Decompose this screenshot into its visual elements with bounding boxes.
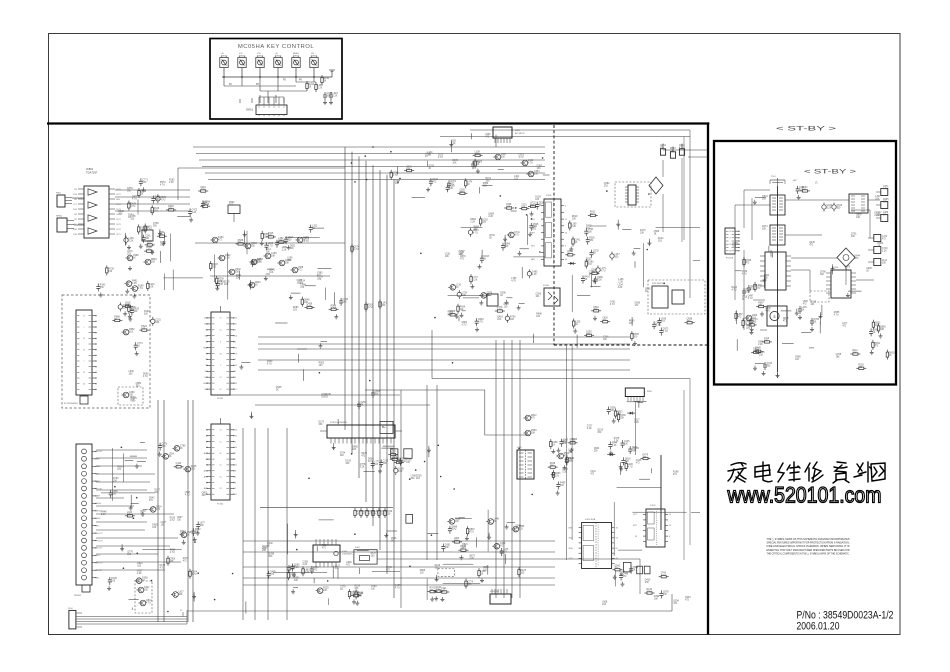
svg-text:28: 28 [220,353,222,355]
svg-text:2.2K: 2.2K [758,344,763,346]
svg-text:15: 15 [220,441,222,443]
svg-text:1K: 1K [340,589,343,591]
svg-text:EXT/SPEAKER: EXT/SPEAKER [64,402,78,405]
svg-text:10K: 10K [497,319,502,321]
svg-text:STR-W6754: STR-W6754 [652,283,664,285]
svg-text:10K: 10K [430,590,435,592]
svg-text:2.2K: 2.2K [137,573,142,575]
svg-text:L: L [206,441,207,443]
svg-text:4.7U: 4.7U [656,325,661,327]
svg-text:1K: 1K [276,389,279,391]
svg-text:ABL: ABL [97,465,100,468]
svg-text:1K: 1K [866,270,869,272]
svg-text:4.7U: 4.7U [146,250,151,252]
svg-text:4.7U: 4.7U [192,574,197,576]
svg-text:IC402 RGB: IC402 RGB [585,519,596,521]
svg-text:4.7U: 4.7U [200,190,205,192]
svg-text:1K: 1K [325,396,328,398]
svg-text:4.7U: 4.7U [511,281,516,283]
svg-text:1K: 1K [575,324,578,326]
svg-text:1K: 1K [481,574,484,576]
svg-text:10K: 10K [200,525,205,527]
svg-text:6: 6 [235,471,236,473]
svg-text:4.7U: 4.7U [469,532,474,534]
svg-text:V.OUT: V.OUT [97,570,103,572]
svg-text:1: 1 [220,365,221,367]
svg-text:AV2: AV2 [204,475,207,478]
svg-text:1K: 1K [133,258,136,260]
svg-text:10K: 10K [155,199,160,201]
svg-text:4.7U: 4.7U [143,376,148,378]
svg-text:2.2K: 2.2K [618,287,623,289]
svg-text:10K: 10K [882,263,887,265]
svg-text:1K: 1K [552,445,555,447]
svg-text:10K: 10K [149,286,154,288]
svg-text:2.2K: 2.2K [294,567,299,569]
svg-text:GND: GND [116,199,121,201]
svg-text:10: 10 [83,350,85,352]
svg-text:2.2K: 2.2K [307,306,312,308]
svg-text:1K: 1K [137,346,140,348]
svg-text:P601: P601 [515,130,521,132]
svg-text:4: 4 [235,377,236,379]
svg-text:2.2K: 2.2K [587,428,592,430]
svg-text:IN1: IN1 [74,219,77,221]
svg-text:CN501: CN501 [246,110,254,112]
svg-text:26: 26 [83,384,85,386]
svg-text:2.2K: 2.2K [618,281,623,283]
svg-text:13: 13 [220,430,222,432]
svg-text:AC INPUT: AC INPUT [515,132,525,135]
svg-text:10K: 10K [352,449,357,451]
svg-text:10K: 10K [483,185,488,187]
svg-text:30: 30 [220,453,222,455]
svg-text:GND: GND [203,347,208,349]
svg-text:PC302: PC302 [217,504,224,506]
svg-text:10K: 10K [287,260,292,262]
svg-text:4: 4 [220,341,221,343]
svg-text:OUT1: OUT1 [116,224,121,226]
svg-text:2.2K: 2.2K [882,251,887,253]
svg-text:1K: 1K [169,456,172,458]
svg-text:10: 10 [220,389,222,391]
svg-text:2.2K: 2.2K [473,280,478,282]
svg-text:PC301: PC301 [217,398,224,400]
svg-text:4.7U: 4.7U [170,552,175,554]
svg-text:2.2K: 2.2K [318,88,323,90]
svg-text:2.2K: 2.2K [132,283,137,285]
svg-text:SDA: SDA [568,537,573,540]
svg-text:2.2K: 2.2K [634,422,639,424]
svg-text:PW401: PW401 [74,595,82,597]
svg-text:1K: 1K [575,242,578,244]
svg-text:L: L [206,482,207,484]
svg-text:1K: 1K [489,237,492,239]
svg-text:4.7U: 4.7U [514,234,519,236]
svg-text:10K: 10K [395,183,400,185]
svg-text:10K: 10K [269,272,274,274]
svg-text:1K: 1K [309,87,312,89]
svg-text:2.2K: 2.2K [562,472,567,474]
svg-text:IN2: IN2 [74,189,77,191]
svg-text:1K: 1K [128,217,131,219]
svg-text:16: 16 [235,318,237,320]
svg-text:V.OUT: V.OUT [97,451,103,453]
svg-text:IC301 LA78040N: IC301 LA78040N [330,421,347,424]
svg-text:18: 18 [729,251,731,253]
svg-text:15: 15 [220,465,222,467]
svg-text:10K: 10K [383,463,388,465]
svg-text:2.2K: 2.2K [282,250,287,252]
svg-text:< ST-BY >: < ST-BY > [776,126,837,133]
svg-text:HIP: HIP [793,180,797,182]
svg-text:19: 19 [729,244,731,246]
svg-text:4.7U: 4.7U [368,307,373,309]
svg-text:H.OUT: H.OUT [97,540,103,542]
svg-text:24: 24 [235,447,237,449]
svg-text:1K: 1K [889,355,892,357]
svg-text:2.2K: 2.2K [612,445,617,447]
svg-text:4.7U: 4.7U [304,241,309,243]
svg-text:19: 19 [235,353,237,355]
svg-text:1K: 1K [645,291,648,293]
svg-text:1K: 1K [312,228,315,230]
svg-text:10K: 10K [180,533,185,535]
svg-text:KEY: KEY [633,525,638,527]
svg-text:4.7U: 4.7U [462,325,467,327]
svg-text:11: 11 [235,324,237,326]
svg-text:SDA: SDA [568,547,573,550]
svg-text:IN2: IN2 [74,199,77,201]
svg-text:4.7U: 4.7U [679,148,684,150]
svg-text:10K: 10K [452,163,457,165]
svg-text:22: 22 [235,465,237,467]
svg-text:10K: 10K [820,274,825,276]
svg-text:4.7U: 4.7U [478,322,483,324]
svg-text:19: 19 [235,365,237,367]
svg-text:4.7U: 4.7U [185,494,190,496]
svg-text:www.520101.com: www.520101.com [727,483,882,508]
svg-text:1K: 1K [180,448,183,450]
svg-text:1K: 1K [187,534,190,536]
svg-text:15: 15 [235,494,237,496]
svg-text:5: 5 [235,359,236,361]
svg-text:SW503: SW503 [257,55,263,57]
svg-text:L: L [206,447,207,449]
svg-text:< ST-BY >: < ST-BY > [804,170,857,176]
svg-text:2.2K: 2.2K [571,226,576,228]
svg-text:7: 7 [235,459,236,461]
svg-text:3: 3 [235,341,236,343]
svg-text:2.2K: 2.2K [475,154,480,156]
svg-text:4.7U: 4.7U [473,233,478,235]
svg-text:10K: 10K [127,191,132,193]
svg-text:10: 10 [220,476,222,478]
svg-text:1K: 1K [467,184,470,186]
svg-text:6: 6 [235,476,236,478]
svg-text:GND: GND [568,527,573,529]
svg-text:10K: 10K [852,353,857,355]
svg-text:20: 20 [235,383,237,385]
svg-text:1K: 1K [878,245,881,247]
svg-text:AV2: AV2 [204,487,207,490]
svg-text:10K: 10K [459,192,464,194]
svg-text:10K: 10K [358,596,363,598]
svg-text:1K: 1K [428,168,431,170]
svg-text:SW504: SW504 [275,55,281,57]
svg-text:AV1: AV1 [204,452,207,455]
svg-text:10K: 10K [640,233,645,235]
svg-text:4.7U: 4.7U [883,189,888,191]
svg-text:10K: 10K [654,599,659,601]
svg-text:4.7U: 4.7U [130,206,135,208]
svg-text:2.2K: 2.2K [360,466,365,468]
svg-text:10K: 10K [836,356,841,358]
svg-text:27: 27 [83,316,85,318]
svg-text:10K: 10K [851,236,856,238]
svg-text:4.7U: 4.7U [138,288,143,290]
svg-text:P404: P404 [68,608,72,610]
svg-text:1K: 1K [585,279,588,281]
svg-text:OUT1: OUT1 [116,234,121,236]
svg-text:2.2K: 2.2K [279,243,284,245]
svg-text:IC601: IC601 [546,195,552,197]
svg-text:4.7U: 4.7U [519,157,524,159]
svg-text:4.7U: 4.7U [354,249,359,251]
svg-text:14: 14 [83,372,85,374]
svg-text:4.7U: 4.7U [732,289,737,291]
svg-text:1K: 1K [357,514,360,516]
svg-text:10K: 10K [856,217,861,219]
svg-text:2.2K: 2.2K [333,96,338,98]
svg-text:10K: 10K [445,256,450,258]
svg-text:10K: 10K [266,251,271,253]
svg-text:2006.01.20: 2006.01.20 [797,621,840,633]
svg-text:4.7U: 4.7U [267,364,272,366]
svg-text:1K: 1K [845,269,848,271]
svg-text:1K: 1K [475,165,478,167]
svg-text:IC403: IC403 [650,505,656,507]
svg-text:1K: 1K [500,295,503,297]
svg-text:10: 10 [83,338,85,340]
svg-text:2.2K: 2.2K [192,212,197,214]
svg-text:1K: 1K [141,194,144,196]
svg-text:2.2K: 2.2K [169,182,174,184]
svg-text:3: 3 [235,371,236,373]
svg-text:1K: 1K [176,465,179,467]
svg-text:4.7U: 4.7U [647,592,652,594]
svg-text:10K: 10K [170,561,175,563]
svg-text:4.7U: 4.7U [834,314,839,316]
svg-text:1K: 1K [586,261,589,263]
svg-text:10K: 10K [572,218,577,220]
svg-text:13: 13 [729,231,731,233]
svg-text:V.OUT: V.OUT [97,548,103,550]
svg-text:4.7U: 4.7U [395,588,400,590]
svg-text:4.7U: 4.7U [268,246,273,248]
svg-text:10K: 10K [460,254,465,256]
svg-text:1: 1 [84,327,85,329]
svg-text:2.2K: 2.2K [303,564,308,566]
svg-text:SW506: SW506 [311,55,317,57]
svg-text:2.2K: 2.2K [101,514,106,516]
svg-text:1K: 1K [593,253,596,255]
svg-text:1K: 1K [633,569,636,571]
svg-text:2.2K: 2.2K [827,208,832,210]
svg-text:L: L [206,430,207,432]
svg-text:2.2K: 2.2K [532,274,537,276]
svg-text:OUT1: OUT1 [116,194,121,196]
svg-text:P402 CRT: P402 CRT [490,591,500,593]
svg-text:4.7U: 4.7U [202,205,207,207]
svg-text:4.7U: 4.7U [610,304,615,306]
svg-text:7: 7 [235,453,236,455]
svg-text:10K: 10K [396,461,401,463]
svg-text:19: 19 [235,436,237,438]
svg-text:1K: 1K [483,259,486,261]
svg-text:4.7U: 4.7U [160,199,165,201]
svg-text:10K: 10K [130,309,135,311]
svg-text:4.7U: 4.7U [601,271,606,273]
svg-text:3: 3 [235,482,236,484]
svg-text:16: 16 [235,336,237,338]
svg-text:4.7U: 4.7U [132,198,137,200]
svg-text:IN2: IN2 [74,214,77,216]
svg-text:1: 1 [235,488,236,490]
svg-text:1K: 1K [742,299,745,301]
svg-text:10K: 10K [143,230,148,232]
svg-text:1K: 1K [590,214,593,216]
svg-text:4.7U: 4.7U [497,310,502,312]
svg-text:17: 17 [235,389,237,391]
svg-text:4.7U: 4.7U [528,163,533,165]
svg-text:10K: 10K [762,229,767,231]
svg-text:1K: 1K [802,310,805,312]
svg-text:4.7U: 4.7U [146,603,151,605]
svg-text:H.OUT: H.OUT [97,563,103,565]
svg-text:FOC08: FOC08 [726,258,734,260]
svg-text:1K: 1K [633,451,636,453]
svg-text:1K: 1K [654,233,657,235]
svg-text:10K: 10K [343,301,348,303]
svg-text:16: 16 [235,347,237,349]
svg-text:4.7U: 4.7U [661,575,666,577]
svg-text:2.2K: 2.2K [488,216,493,218]
svg-text:4.7U: 4.7U [765,310,770,312]
svg-text:1K: 1K [324,81,327,83]
svg-text:GND: GND [203,383,208,385]
svg-text:SW502: SW502 [239,55,245,57]
svg-text:LC863532C: LC863532C [342,554,353,556]
svg-text:SW505: SW505 [293,55,299,57]
svg-text:2.2K: 2.2K [305,572,310,574]
svg-text:1K: 1K [494,521,497,523]
svg-text:25: 25 [220,318,222,320]
svg-text:1K: 1K [873,332,876,334]
svg-text:SW501: SW501 [221,55,227,57]
svg-text:1K: 1K [883,215,886,217]
svg-text:10K: 10K [257,261,262,263]
svg-text:P4: P4 [180,610,182,612]
svg-text:10K: 10K [271,256,276,258]
svg-text:10K: 10K [531,433,536,435]
svg-text:1K: 1K [814,322,817,324]
svg-text:16: 16 [220,330,222,332]
svg-text:4.7U: 4.7U [451,529,456,531]
svg-text:4.7U: 4.7U [748,298,753,300]
svg-text:10K: 10K [285,263,290,265]
svg-text:4.7U: 4.7U [438,157,443,159]
svg-text:PC601: PC601 [543,285,550,287]
svg-text:H.OUT: H.OUT [97,533,103,535]
svg-text:19: 19 [220,377,222,379]
svg-text:10K: 10K [294,580,299,582]
svg-text:4.7U: 4.7U [628,467,633,469]
svg-text:10K: 10K [620,418,625,420]
svg-text:SCL: SCL [97,555,101,557]
svg-text:1K: 1K [114,319,117,321]
svg-text:SP802: SP802 [56,216,63,218]
svg-text:4.7U: 4.7U [160,567,165,569]
svg-text:OUT1: OUT1 [116,219,121,221]
svg-text:KEY: KEY [531,246,536,248]
svg-text:10K: 10K [398,471,403,473]
svg-text:2.2K: 2.2K [470,222,475,224]
svg-text:2: 2 [235,441,236,443]
svg-text:1K: 1K [567,253,570,255]
svg-text:AV1: AV1 [204,470,207,473]
svg-text:28: 28 [220,488,222,490]
svg-text:1K: 1K [391,541,394,543]
svg-text:2.2K: 2.2K [874,215,879,217]
svg-text:MC05HA KEY CONTROL: MC05HA KEY CONTROL [238,44,315,50]
svg-text:4.7U: 4.7U [393,175,398,177]
svg-text:4.7U: 4.7U [742,273,747,275]
svg-text:7: 7 [84,361,85,363]
svg-text:T402: T402 [517,447,523,449]
svg-text:14: 14 [235,430,237,432]
svg-text:1K: 1K [255,285,258,287]
svg-text:10K: 10K [340,455,345,457]
svg-text:4.7U: 4.7U [170,520,175,522]
svg-text:2.2K: 2.2K [129,241,134,243]
svg-text:B+: B+ [382,425,386,429]
svg-text:1K: 1K [456,287,459,289]
svg-text:2.2K: 2.2K [597,280,602,282]
svg-text:10K: 10K [449,188,454,190]
svg-text:10K: 10K [448,314,453,316]
svg-text:2.2K: 2.2K [614,441,619,443]
svg-text:OUT2: OUT2 [116,229,121,231]
svg-text:2.2K: 2.2K [435,590,440,592]
svg-text:2: 2 [730,238,731,240]
svg-text:4.7U: 4.7U [160,185,165,187]
svg-text:THE CRITICAL COMPONENTS IN THE: THE CRITICAL COMPONENTS IN THE △ SYMBOL … [767,552,850,556]
svg-text:2.2K: 2.2K [469,558,474,560]
svg-text:4.7U: 4.7U [663,331,668,333]
svg-text:10K: 10K [562,443,567,445]
svg-text:10K: 10K [445,547,450,549]
svg-text:2: 2 [235,330,236,332]
svg-text:TDA7297: TDA7297 [86,170,98,174]
svg-text:4.7U: 4.7U [331,308,336,310]
